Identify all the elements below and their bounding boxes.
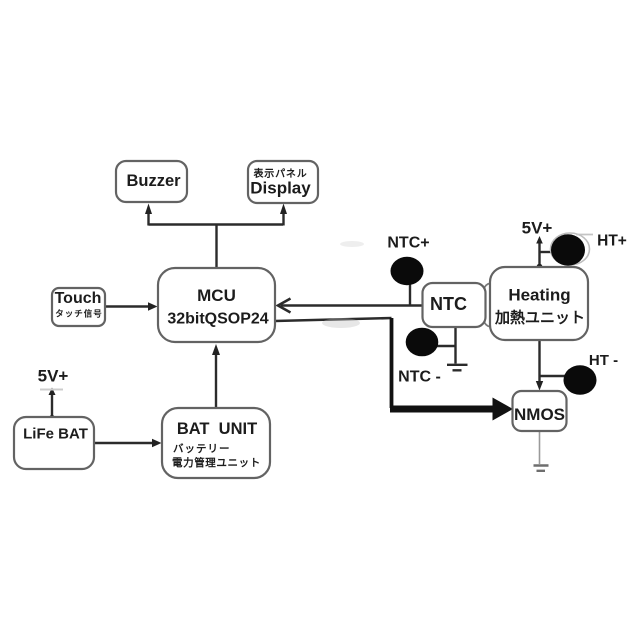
svg-text:Display: Display bbox=[250, 179, 311, 198]
svg-text:5V+: 5V+ bbox=[522, 219, 553, 238]
svg-text:加熱ユニット: 加熱ユニット bbox=[494, 309, 585, 327]
svg-text:HT -: HT - bbox=[589, 352, 618, 369]
svg-text:NTC -: NTC - bbox=[398, 369, 441, 386]
svg-text:BAT UNIT: BAT UNIT bbox=[177, 420, 257, 438]
svg-text:Touch: Touch bbox=[55, 290, 102, 307]
svg-text:LiFe BAT: LiFe BAT bbox=[23, 426, 88, 443]
svg-text:MCU: MCU bbox=[197, 286, 236, 305]
svg-text:5V+: 5V+ bbox=[38, 367, 69, 386]
svg-text:タッチ信号: タッチ信号 bbox=[55, 309, 103, 319]
svg-text:電力管理ユニット: 電力管理ユニット bbox=[172, 456, 261, 469]
svg-text:Heating: Heating bbox=[508, 286, 570, 305]
svg-text:NTC+: NTC+ bbox=[387, 235, 429, 252]
svg-text:32bitQSOP24: 32bitQSOP24 bbox=[167, 311, 268, 328]
svg-text:HT+: HT+ bbox=[597, 233, 627, 250]
svg-text:NMOS: NMOS bbox=[514, 405, 565, 424]
svg-text:Buzzer: Buzzer bbox=[126, 172, 181, 190]
svg-text:NTC: NTC bbox=[430, 294, 467, 314]
svg-text:バッテリー: バッテリー bbox=[173, 443, 231, 455]
